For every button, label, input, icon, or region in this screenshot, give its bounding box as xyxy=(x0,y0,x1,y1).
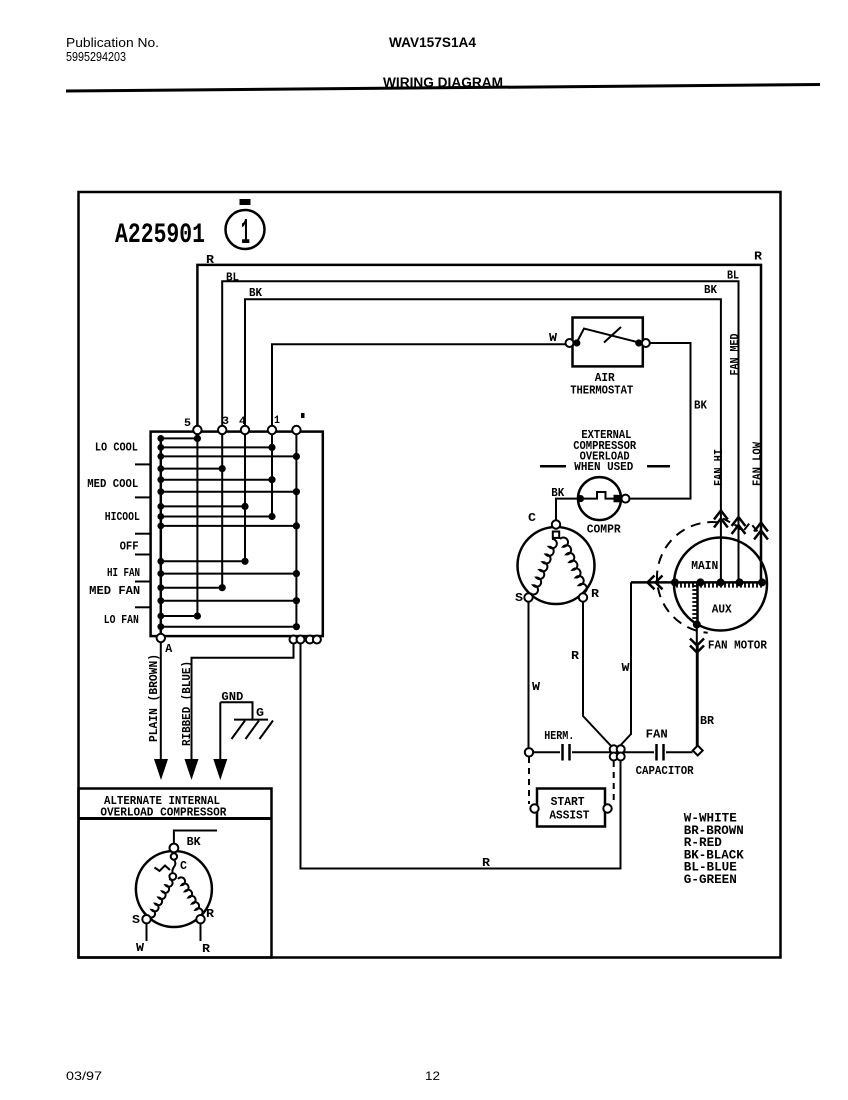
svg-text:OFF: OFF xyxy=(120,540,139,554)
svg-text:FAN MOTOR: FAN MOTOR xyxy=(708,639,768,653)
svg-text:WHEN USED: WHEN USED xyxy=(574,460,633,474)
svg-text:HICOOL: HICOOL xyxy=(105,510,140,524)
svg-text:R: R xyxy=(206,907,215,921)
svg-text:GND: GND xyxy=(221,690,243,704)
svg-text:1: 1 xyxy=(274,415,280,427)
svg-text:OVERLOAD COMPRESSOR: OVERLOAD COMPRESSOR xyxy=(100,806,227,820)
svg-text:BK: BK xyxy=(187,835,202,849)
svg-text:W: W xyxy=(622,661,631,675)
svg-text:COMPR: COMPR xyxy=(587,523,622,537)
svg-text:C: C xyxy=(528,511,536,525)
svg-text:A225901: A225901 xyxy=(115,220,205,251)
svg-text:W: W xyxy=(532,680,541,694)
svg-text:FAN HI: FAN HI xyxy=(712,449,726,486)
svg-text:HI FAN: HI FAN xyxy=(107,566,140,580)
svg-text:START: START xyxy=(551,795,585,809)
svg-text:R: R xyxy=(754,250,763,264)
svg-text:BL: BL xyxy=(226,271,239,285)
svg-text:MED FAN: MED FAN xyxy=(89,584,140,598)
svg-text:MAIN: MAIN xyxy=(691,559,718,573)
svg-text:THERMOSTAT: THERMOSTAT xyxy=(570,384,633,398)
svg-text:R: R xyxy=(206,253,215,267)
svg-text:LO FAN: LO FAN xyxy=(104,613,139,627)
svg-text:BL: BL xyxy=(727,269,739,283)
svg-text:12: 12 xyxy=(425,1069,440,1083)
svg-text:R: R xyxy=(482,856,491,870)
svg-text:PLAIN (BROWN): PLAIN (BROWN) xyxy=(147,654,161,742)
svg-text:BR: BR xyxy=(700,714,715,728)
svg-text:R: R xyxy=(591,587,600,601)
svg-text:CAPACITOR: CAPACITOR xyxy=(636,764,695,778)
svg-text:G-GREEN: G-GREEN xyxy=(684,873,737,887)
svg-text:W: W xyxy=(136,941,145,955)
svg-text:WAV157S1A4: WAV157S1A4 xyxy=(389,35,476,50)
svg-text:Publication No.: Publication No. xyxy=(66,35,159,50)
svg-text:MED COOL: MED COOL xyxy=(87,477,138,491)
svg-text:4: 4 xyxy=(239,416,246,428)
svg-text:AUX: AUX xyxy=(712,603,733,617)
svg-text:LO COOL: LO COOL xyxy=(95,441,138,455)
svg-text:FAN LOW: FAN LOW xyxy=(751,441,765,486)
svg-text:03/97: 03/97 xyxy=(66,1069,102,1083)
svg-text:5995294203: 5995294203 xyxy=(66,49,126,64)
svg-text:S: S xyxy=(132,913,140,927)
svg-text:W: W xyxy=(549,331,558,345)
svg-text:R: R xyxy=(571,649,580,663)
svg-text:BK: BK xyxy=(694,399,708,413)
svg-text:3: 3 xyxy=(222,416,229,428)
svg-text:1: 1 xyxy=(241,213,250,254)
svg-text:A: A xyxy=(165,642,173,656)
svg-text:RIBBED (BLUE): RIBBED (BLUE) xyxy=(180,661,194,746)
svg-text:G: G xyxy=(256,706,264,720)
svg-text:C: C xyxy=(180,859,187,873)
svg-text:HERM.: HERM. xyxy=(544,729,574,743)
svg-text:S: S xyxy=(515,591,523,605)
svg-text:FAN MED: FAN MED xyxy=(728,334,742,376)
svg-text:FAN: FAN xyxy=(646,728,668,742)
svg-text:R: R xyxy=(202,942,211,956)
svg-text:BK: BK xyxy=(704,283,718,297)
svg-text:ASSIST: ASSIST xyxy=(549,809,589,823)
svg-text:BK: BK xyxy=(249,286,263,300)
svg-text:5: 5 xyxy=(184,418,191,430)
